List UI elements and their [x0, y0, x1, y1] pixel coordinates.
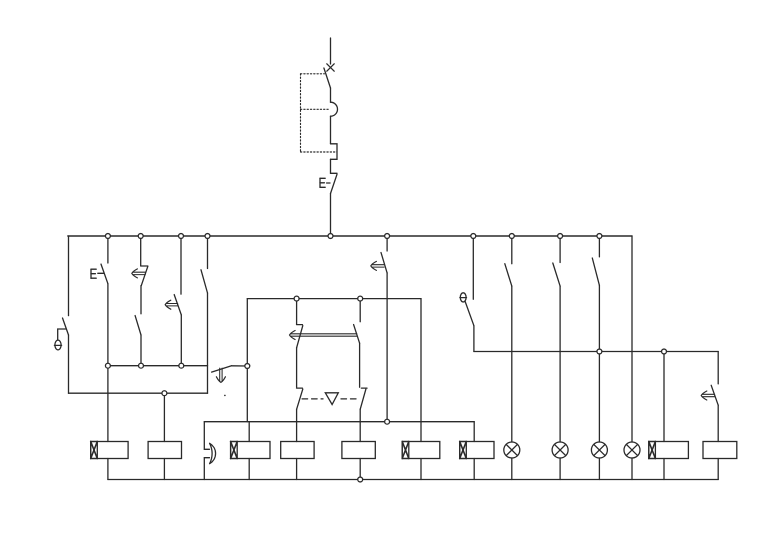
stray dot	[224, 395, 226, 397]
breaker trip cross X	[327, 64, 334, 71]
coil K4a	[281, 442, 314, 459]
contact K2b lower	[360, 388, 367, 441]
node lamp rail 1	[597, 349, 602, 354]
wire	[248, 422, 250, 442]
coil K5 with aux	[649, 442, 689, 459]
wire	[663, 459, 665, 480]
wire right branch	[717, 352, 719, 384]
wire	[330, 88, 332, 102]
wire to bus	[330, 194, 332, 237]
switch blade with arrow	[381, 253, 387, 273]
pull switch blade	[212, 366, 232, 372]
wire lamp switch 2 column	[559, 236, 561, 263]
wire	[107, 366, 109, 442]
coil K7 with aux	[460, 442, 494, 459]
coil K4b	[342, 442, 375, 459]
mechanical link dashed	[302, 398, 357, 400]
node bus 1	[105, 234, 110, 239]
middle box left edge	[246, 299, 248, 422]
node bus 3	[179, 234, 184, 239]
breaker enclosure dashed box	[301, 74, 338, 152]
switch blade	[201, 270, 208, 293]
arrow actuator	[371, 261, 384, 270]
wire left bottom rail	[69, 392, 208, 394]
lamp 4	[624, 442, 640, 458]
wire	[207, 293, 209, 393]
wire	[107, 284, 109, 366]
node bus 7	[509, 234, 514, 239]
wire coil K5 feed	[663, 352, 665, 442]
wire lamp switch 3 column	[598, 236, 600, 257]
wire	[473, 422, 475, 442]
wire	[717, 459, 719, 480]
wire	[559, 458, 561, 480]
label dash left	[98, 272, 104, 274]
node interlock 1	[105, 363, 110, 368]
node bus 2	[138, 234, 143, 239]
lamp 2	[552, 442, 568, 458]
lamp 1	[504, 442, 520, 458]
coil K6 with aux	[402, 442, 440, 459]
node bottom rail	[358, 477, 363, 482]
arrow actuator right	[701, 391, 714, 400]
magnetic trip arc	[331, 102, 338, 116]
switch blade	[135, 316, 141, 335]
coil K1 with aux	[91, 442, 128, 459]
contact K1a upper	[297, 299, 303, 388]
node lamp rail 2	[662, 349, 667, 354]
coil K2	[148, 442, 181, 459]
middle box top edge	[247, 298, 421, 300]
wire	[330, 116, 332, 144]
wire	[296, 459, 298, 480]
wire arrow-switch column	[180, 236, 182, 294]
wire	[163, 459, 165, 480]
label E top	[320, 178, 325, 187]
switch blade	[592, 258, 599, 285]
switch blade	[505, 264, 512, 286]
arrow actuator left	[132, 269, 146, 278]
emergency stop contact seat	[331, 172, 338, 174]
node bus 9	[597, 234, 602, 239]
lamp 3	[591, 442, 607, 458]
wire	[140, 335, 142, 366]
latch triangle	[325, 393, 338, 405]
wire	[420, 459, 422, 480]
wire lamp rail	[474, 351, 718, 353]
switch blade	[553, 263, 560, 286]
node bus supply	[328, 234, 333, 239]
coil K3 with aux	[231, 442, 270, 459]
wire contactor switch column	[386, 236, 388, 251]
node interlock 3	[179, 363, 184, 368]
wire	[232, 365, 247, 367]
node left rail	[162, 391, 167, 396]
buzzer feed	[204, 422, 209, 450]
node box top 2	[358, 296, 363, 301]
middle box right edge	[420, 299, 422, 442]
wire lamp switch 1 column	[511, 236, 513, 264]
buzzer lower lead	[204, 458, 209, 480]
node bus 5	[385, 234, 390, 239]
wire	[68, 335, 70, 393]
node interlock 2	[139, 363, 144, 368]
wire supply drop	[330, 38, 332, 64]
wire	[330, 159, 332, 173]
wire	[180, 315, 182, 366]
node bus 4	[205, 234, 210, 239]
wire	[296, 441, 298, 443]
label E left	[91, 269, 96, 278]
wire NC contact column	[140, 236, 142, 266]
wire	[386, 273, 388, 422]
pull switch arrow down	[216, 368, 225, 382]
circuit breaker blade	[324, 68, 331, 88]
thermostat switch blade 2	[465, 301, 474, 325]
contact K2a lower	[297, 388, 303, 441]
switch E blade	[101, 264, 108, 284]
wire bottom return rail	[108, 479, 718, 481]
wire left edge drop	[68, 236, 70, 316]
wire	[717, 405, 719, 441]
wire	[473, 459, 475, 480]
contact K1b upper	[354, 299, 361, 388]
wire	[631, 458, 633, 480]
wire	[559, 286, 561, 442]
NC contact blade	[141, 266, 148, 285]
wire lower rail	[204, 421, 474, 423]
wire	[248, 459, 250, 480]
wire	[473, 326, 475, 352]
thermostat link	[58, 329, 66, 340]
wire right switch column of left group	[207, 236, 209, 269]
NC contact seat	[141, 265, 148, 267]
wire	[598, 285, 600, 442]
wire	[140, 286, 142, 314]
wire	[163, 393, 165, 441]
node box left	[245, 364, 250, 369]
node box top 1	[294, 296, 299, 301]
wire	[511, 458, 513, 480]
thermostat switch blade	[63, 318, 69, 335]
label dash top	[327, 182, 330, 184]
node lower rail	[385, 419, 390, 424]
wire main bus	[68, 235, 632, 237]
emergency stop contact blade	[331, 174, 338, 193]
wire E-switch column	[107, 236, 109, 263]
thermal overload element	[331, 144, 338, 160]
switch blade with arrow right	[711, 385, 718, 405]
wire bus right drop	[631, 236, 633, 442]
buzzer horn	[210, 443, 216, 463]
wire	[598, 458, 600, 480]
wire	[359, 459, 361, 480]
arrow actuator	[165, 300, 178, 309]
node bus 8	[558, 234, 563, 239]
wire	[107, 459, 109, 480]
thermostat bulb theta	[54, 340, 61, 350]
switch blade with arrow	[174, 295, 181, 315]
linkage arrow long	[290, 331, 357, 340]
thermostat bulb theta 2	[460, 293, 467, 302]
node bus 6	[471, 234, 476, 239]
wire thermostat2 column	[472, 236, 474, 299]
coil K8	[703, 442, 737, 459]
wire interlock rail	[108, 365, 208, 367]
wire	[511, 286, 513, 442]
